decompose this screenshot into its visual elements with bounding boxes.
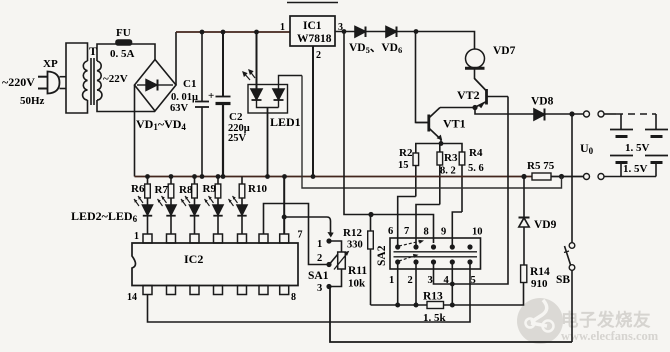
wire pin14 rail junction to SA2 pin5 [330,262,470,322]
capacitor C2 electrolytic [216,32,231,177]
wire VT2 base riser down [434,97,509,285]
svg-text:1. 5k: 1. 5k [423,312,447,324]
svg-text:1. 5V: 1. 5V [625,142,650,154]
wire to battery top [604,113,616,115]
svg-text:7: 7 [404,226,409,237]
wire battery bottom return [604,176,656,178]
svg-text:1: 1 [389,275,394,286]
svg-text:C2: C2 [229,111,243,123]
svg-text:LED1: LED1 [270,115,301,129]
svg-text:2: 2 [316,50,321,61]
battery column left [610,114,633,177]
LED1 box [248,85,288,114]
wire R4 to SA2 pin9 [452,212,462,247]
node dot LED1 top [254,30,259,35]
svg-text:R2: R2 [399,147,413,159]
svg-text:VT1: VT1 [443,117,466,131]
wire VT1 collector to VT2 emitter node [440,107,475,109]
node SA2 pin1 on R13 rail [395,303,400,308]
SA2 contact pin 5 [467,259,472,264]
wire IC1 pin3 sense riser [344,32,434,244]
svg-text:5. 6: 5. 6 [468,163,484,174]
switch SA1 contact 1 [326,238,331,243]
wire pin7 branch to SA1 pin1 with arrow [284,217,330,234]
transformer T primary loop wire [66,43,88,113]
node dot on pin7 riser [282,215,287,220]
svg-text:C1: C1 [183,78,196,90]
node R7 on rail1 [169,174,174,179]
wire rail1 right of R5 [551,176,584,178]
transformer T secondary winding [97,61,102,100]
LED1 light arrows [243,70,255,80]
switch SA1 contact 3 [326,284,331,289]
svg-text:+: + [208,90,214,102]
SA2 wiper arrow top [399,242,419,247]
svg-text:XP: XP [43,58,58,70]
svg-text:50Hz: 50Hz [20,95,45,107]
svg-text:VD1~VD4: VD1~VD4 [136,117,186,132]
SA2 internal bus bars [394,251,478,253]
wire IC1 pin3 out [335,31,355,33]
wire SA2 pin1 down [397,262,399,305]
terminal circles output top [584,111,590,117]
diode VD6 [386,27,416,38]
wire fuse to bridge top vertex [132,44,156,60]
LED1 right led [273,76,302,108]
SA2 contact pin 9 [450,244,455,249]
svg-text:LED2~LED6: LED2~LED6 [71,209,138,224]
svg-text:2: 2 [317,253,322,264]
resistor R6 with LED2 [134,177,153,234]
battery dashed top wire [616,113,656,115]
bridge rectifier VD1~VD4 diamond [135,60,177,112]
SA2 contact pin 10 [467,244,472,249]
resistor R3 [437,144,443,205]
svg-text:R12: R12 [343,227,362,239]
plug XP [38,72,66,94]
svg-text:IC2: IC2 [184,252,203,266]
resistor R12 [368,215,374,306]
switch SA1 wiper [330,254,338,264]
svg-text:www.elecfans.com: www.elecfans.com [561,329,659,343]
svg-text:7: 7 [298,230,303,241]
SA2 contact pin 8 [431,244,436,249]
diode VD8 [534,109,586,121]
node IC1 pin2 on rail1 [311,174,316,179]
svg-text:330: 330 [347,240,363,251]
svg-text:T: T [89,44,97,58]
svg-text:1: 1 [134,231,139,242]
wire R2 to SA2 pin6 [398,197,416,248]
svg-text:63V: 63V [170,103,189,114]
transistor VT2 [475,79,509,109]
wire R13 to R14 bottom [444,283,524,305]
wire SA1 pin3 to R11 bottom [329,269,342,287]
resistor R4 [459,152,465,212]
node dot R12 top [368,212,373,217]
node dot pin4/line cross [450,282,455,287]
wire bridge right vertex up to top rail [175,32,177,85]
SA2 contact pin 6 [395,244,400,249]
wire SA2 pin2 down [415,262,417,305]
svg-text:VD8: VD8 [531,96,554,108]
svg-text:1: 1 [317,239,322,250]
svg-text:8. 2: 8. 2 [440,166,456,177]
svg-text:VD9: VD9 [534,219,557,231]
svg-text:R6: R6 [131,183,145,195]
potentiometer R11 [334,251,349,270]
svg-text:3: 3 [428,275,433,286]
switch SA1 contact 2 [326,262,331,267]
node C1 on rail1 [200,174,205,179]
svg-text:R14: R14 [530,266,550,278]
wire output from node through to VD8 line [475,108,534,115]
wire ground rail (rail1) [135,176,533,178]
svg-text:5: 5 [471,275,476,286]
svg-text:15: 15 [398,160,409,171]
node C2 on rail1 [221,174,226,179]
svg-text:FU: FU [116,27,131,39]
wire R13 rail [371,304,428,306]
SA2 contact pin 3 [431,259,436,264]
IC1 pin2 wire down to ground rail [312,46,314,177]
wire IC2 pin6 riser to SA1 pin2 [264,204,327,265]
svg-text:1: 1 [280,22,285,33]
svg-text:~22V: ~22V [103,73,128,85]
svg-text:8: 8 [424,227,429,238]
svg-text:6: 6 [388,226,393,237]
IC2 bottom pin squares [143,286,289,295]
resistor R5 inline [532,173,551,180]
svg-text:R9: R9 [203,183,217,195]
wire SA1 pin1 to R11 top [329,241,342,252]
node dot emitter rail [439,141,444,146]
svg-text:2: 2 [408,275,413,286]
svg-text:~220V: ~220V [2,75,35,89]
SA2 contact pin 7 [413,244,418,249]
wire IC2 pin14 to bottom junction [148,295,331,323]
SA2 contact pin 1 [395,259,400,264]
svg-text:R4: R4 [469,147,483,159]
svg-text:VT2: VT2 [457,88,480,102]
terminal circles output bottom [584,174,590,180]
svg-text:0. 01μ: 0. 01μ [171,92,198,103]
zener diode VD9 [519,177,530,266]
svg-text:910: 910 [531,278,548,290]
switch SA2 box [390,238,481,269]
wire secondary bottom to bridge bottom vertex [97,100,155,112]
node IC2 pin7 on rail1 [282,174,287,179]
svg-text:SB: SB [556,274,570,286]
svg-text:10k: 10k [348,278,366,290]
wire secondary top to fuse [97,44,116,61]
node dot C2 top [221,30,226,35]
svg-text:VD7: VD7 [493,45,516,57]
capacitor C1 [195,32,209,177]
IC1 box [290,16,335,46]
wire top terminal node down to SB [571,114,573,243]
wire resistor top rail [416,144,462,154]
node R8 on rail1 [192,174,197,179]
SA2 wiper arrow bottom [399,256,414,261]
fuse FU [116,40,132,45]
wire SA2 pin4 down to R13 rail [451,262,453,305]
resistor R2 [413,153,419,197]
svg-text:10: 10 [472,227,483,238]
svg-text:9: 9 [441,227,446,238]
op-amp IC2 body [132,243,298,286]
resistor R7 with LED3 [158,177,177,234]
svg-text:IC1: IC1 [303,20,322,32]
transformer core [90,58,92,105]
resistor R14 [521,265,527,283]
node R6 on rail1 [145,174,150,179]
node dot C1 top [200,30,205,35]
node SA2 pin2 on R13 rail [414,303,419,308]
node dot sense branch [559,174,564,179]
svg-text:R10: R10 [248,183,267,195]
watermark logo circle [517,298,563,344]
node R9 on rail1 [216,174,221,179]
svg-text:VD5、VD6: VD5、VD6 [349,42,402,55]
switch SB [564,243,575,342]
svg-text:0. 5A: 0. 5A [110,48,135,60]
wire R3 to SA2 pin7 [416,205,440,248]
svg-text:14: 14 [127,292,137,303]
svg-text:R13: R13 [423,291,443,303]
svg-text:电子发烧友: 电子发烧友 [561,310,651,330]
bridge internal diode [137,80,173,91]
wire sense rail (rail2) from output back to LED1 [302,76,562,189]
wire VT1 base from rectifier rail [416,32,429,123]
wire rail to VD7 corner [416,32,475,50]
wire VT1 emitter down to resistor rail [440,140,442,144]
node dot pin3 branch [342,29,347,34]
LED1 left led [251,32,279,108]
svg-text:3: 3 [338,22,343,33]
IC2 top pin squares [143,234,289,243]
resistor R10 with LED6 [229,177,248,234]
svg-text:SA1: SA1 [308,270,329,282]
SA2 contact pin 2 [413,259,418,264]
svg-text:R3: R3 [444,152,458,164]
node LED1 cathode on rail1 [265,174,270,179]
node dot VD9 branch [521,174,526,179]
svg-text:1. 5V: 1. 5V [623,163,648,175]
wire SA1 pin3 down to bottom rails [329,287,572,343]
resistor R9 with LED5 [205,177,224,234]
svg-text:R7: R7 [155,184,169,196]
svg-text:W7818: W7818 [297,33,332,45]
diode VD7 (circle symbol) [465,49,485,79]
transistor VT1 [416,108,443,141]
svg-text:R8: R8 [179,184,193,196]
svg-text:4: 4 [444,275,450,286]
diode VD5 [355,27,386,38]
svg-text:8: 8 [291,292,296,303]
transformer T primary winding [83,61,88,100]
svg-text:R5 75: R5 75 [527,160,555,172]
SA2 contact pin 4 [450,259,455,264]
wire IC2 pin7 riser to rail1 [283,177,285,235]
node dot after VD6 [414,29,419,34]
wire bridge left vertex down to ground rail [134,85,136,177]
node dot output top [569,111,574,116]
svg-text:R11: R11 [348,265,367,277]
LED1 cathode wire down to ground rail [267,108,269,177]
node SA2 pin4 on R13 rail [450,303,455,308]
border artifact line above IC1 [287,2,338,4]
resistor R8 with LED4 [181,177,200,234]
node dot VT2 emitter / VT1 collector [472,105,477,110]
resistor R13 [427,302,444,309]
svg-text:3: 3 [317,283,322,294]
svg-text:25V: 25V [228,133,247,144]
wire top rail left (bridge to IC1 pin1) [176,31,290,33]
battery column right [645,114,668,177]
svg-text:SA2: SA2 [376,245,388,266]
